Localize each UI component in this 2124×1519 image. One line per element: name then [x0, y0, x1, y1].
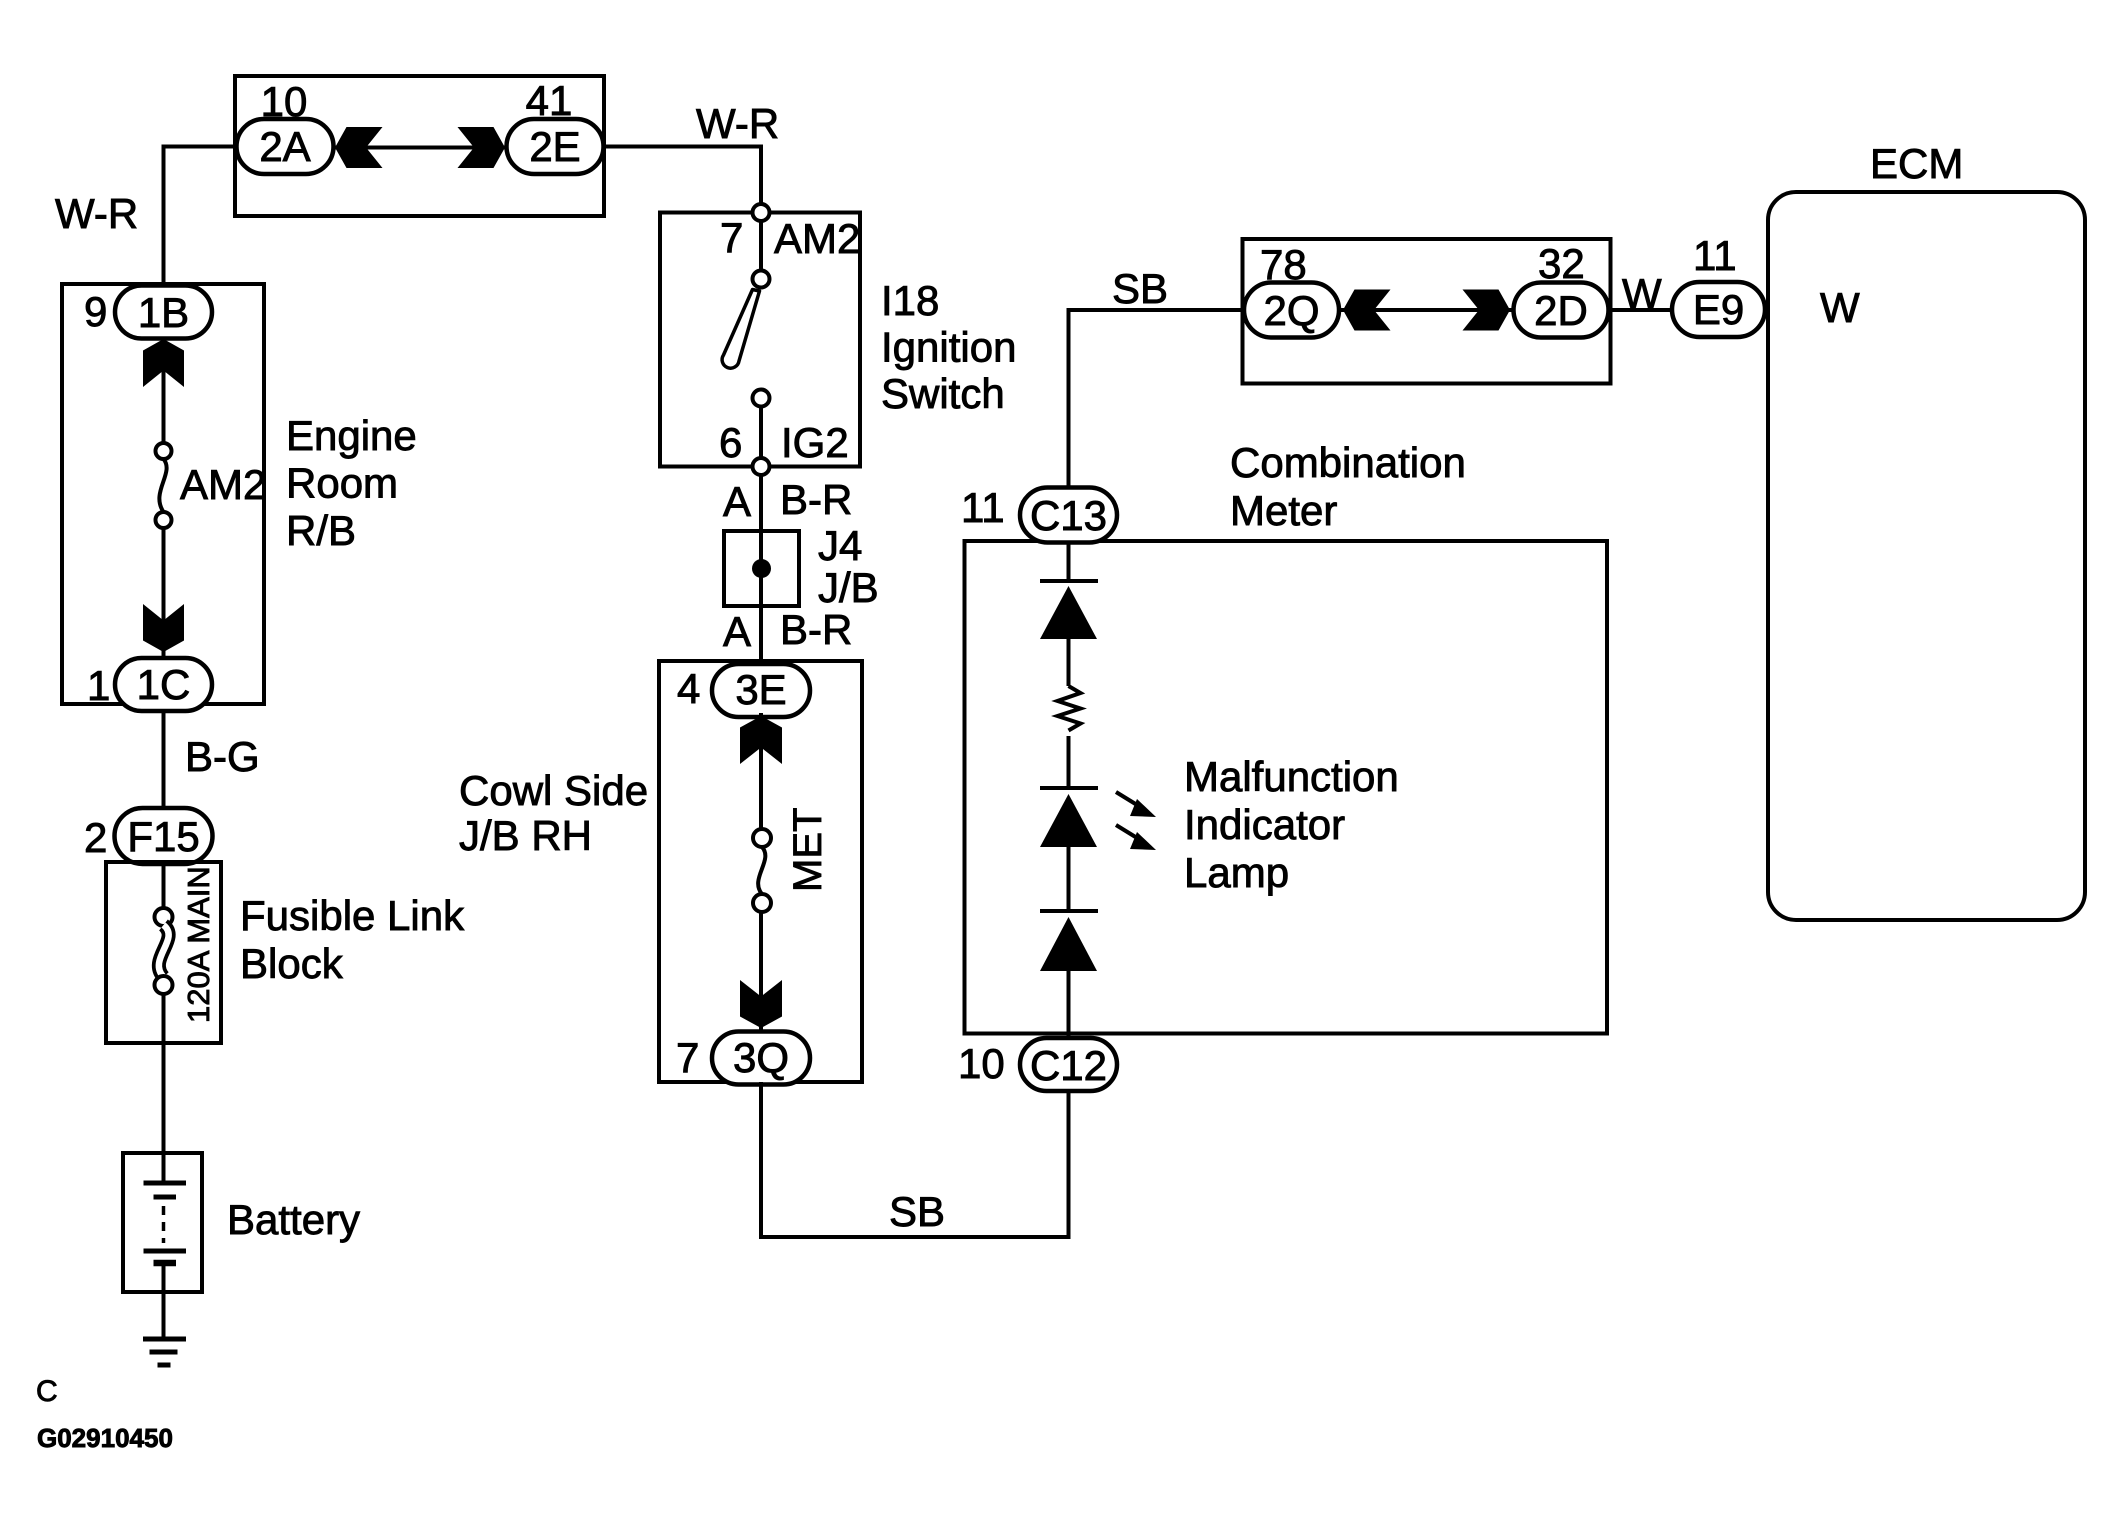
- svg-text:F15: F15: [127, 813, 199, 860]
- label Combination Meter: [1230, 439, 1466, 534]
- connector 1C: [115, 658, 212, 711]
- svg-text:120A MAIN: 120A MAIN: [181, 866, 216, 1023]
- wire 3Q to C12 (SB): [761, 1082, 1069, 1237]
- Cowl Side J/B RH box: [659, 661, 862, 1082]
- wire 3E to 3Q inside cowl J/B: [759, 713, 763, 829]
- wire 1C to F15 (B-G): [162, 711, 166, 809]
- resistor: [1058, 686, 1081, 731]
- svg-text:2D: 2D: [1534, 287, 1588, 334]
- svg-text:R/B: R/B: [286, 507, 356, 554]
- label I18 Ignition Switch: [881, 277, 1016, 417]
- switch wire from terminal 7: [759, 221, 763, 272]
- Battery box: [123, 1153, 202, 1292]
- harness arrow right: [458, 127, 506, 168]
- fusible link 120A MAIN: [155, 908, 173, 994]
- label Malfunction Indicator Lamp: [1184, 753, 1399, 896]
- harness arrow up: [143, 339, 184, 387]
- svg-text:B-R: B-R: [780, 476, 852, 523]
- wire inside combination meter: [1067, 543, 1071, 1038]
- svg-text:1: 1: [87, 662, 110, 709]
- svg-text:Block: Block: [240, 940, 344, 987]
- wire C13 up and right to 2Q (SB): [1069, 310, 1244, 488]
- svg-text:A: A: [723, 608, 751, 655]
- connector 2A: [237, 119, 334, 174]
- switch wire to terminal 6: [759, 407, 763, 459]
- harness junction box 2Q-2D: [1243, 239, 1611, 384]
- harness arrow down: [740, 980, 782, 1028]
- svg-text:C12: C12: [1030, 1042, 1107, 1089]
- svg-text:Room: Room: [286, 460, 398, 507]
- svg-text:2: 2: [84, 814, 107, 861]
- connector 3E: [712, 664, 810, 717]
- connector 3Q: [712, 1032, 810, 1085]
- svg-text:W-R: W-R: [55, 190, 138, 237]
- svg-text:A: A: [723, 478, 751, 525]
- svg-text:J4: J4: [818, 522, 862, 569]
- svg-text:Meter: Meter: [1230, 487, 1337, 534]
- wire 2A to 1B (W-R): [164, 147, 237, 287]
- wire 2D to E9: [1609, 308, 1673, 312]
- ECM box: [1768, 192, 2085, 920]
- svg-text:Lamp: Lamp: [1184, 849, 1289, 896]
- svg-text:Switch: Switch: [881, 370, 1005, 417]
- svg-text:Combination: Combination: [1230, 439, 1466, 486]
- svg-text:Malfunction: Malfunction: [1184, 753, 1399, 800]
- terminal 6 circle: [753, 458, 770, 475]
- svg-text:G02910450: G02910450: [37, 1423, 173, 1453]
- svg-text:1B: 1B: [138, 289, 189, 336]
- label Fusible Link Block: [240, 892, 465, 987]
- harness arrow right: [1463, 290, 1511, 331]
- svg-text:9: 9: [84, 288, 107, 335]
- svg-text:10: 10: [958, 1040, 1005, 1087]
- wire between harness arrows: [1339, 308, 1514, 312]
- svg-text:E9: E9: [1693, 286, 1744, 333]
- harness arrow down: [143, 604, 184, 652]
- ground: [143, 1339, 186, 1365]
- Engine Room R/B box: [62, 284, 264, 704]
- svg-text:3Q: 3Q: [733, 1034, 789, 1081]
- svg-text:Battery: Battery: [227, 1196, 360, 1243]
- label Cowl Side J/B RH: [459, 767, 648, 859]
- svg-text:32: 32: [1538, 240, 1585, 287]
- connector 1B: [115, 286, 212, 339]
- svg-text:AM2: AM2: [180, 461, 266, 508]
- label Engine Room R/B: [286, 412, 417, 554]
- svg-text:IG2: IG2: [781, 419, 849, 466]
- svg-text:Indicator: Indicator: [1184, 801, 1345, 848]
- svg-text:MET: MET: [786, 808, 830, 892]
- battery plates: [144, 1183, 187, 1263]
- svg-text:W-R: W-R: [696, 100, 779, 147]
- junction block J4 box: [724, 531, 799, 606]
- svg-text:6: 6: [719, 419, 742, 466]
- Combination Meter box: [965, 541, 1608, 1034]
- harness arrow left: [335, 127, 383, 168]
- wire between harness arrows: [334, 146, 508, 150]
- connector 2D: [1514, 283, 1609, 338]
- wire battery lower plate: [162, 1262, 166, 1292]
- svg-text:2A: 2A: [259, 123, 310, 170]
- switch contact lower: [753, 390, 770, 407]
- wire 2E to ignition switch terminal 7 (W-R): [604, 147, 761, 207]
- junction dot: [752, 559, 771, 578]
- connector F15: [115, 808, 213, 864]
- svg-text:B-R: B-R: [780, 606, 852, 653]
- svg-text:Ignition: Ignition: [881, 324, 1016, 371]
- svg-text:7: 7: [676, 1034, 699, 1081]
- diode D3: [1040, 911, 1098, 971]
- switch contact upper: [753, 271, 770, 288]
- terminal 7 circle: [753, 204, 770, 221]
- connector 2Q: [1244, 283, 1339, 338]
- svg-text:W: W: [1820, 284, 1860, 331]
- connector C12: [1020, 1038, 1117, 1091]
- Ignition Switch box: [660, 213, 860, 467]
- svg-text:Engine: Engine: [286, 412, 417, 459]
- diode D1: [1040, 581, 1098, 639]
- wire F15 into fusible link block: [162, 864, 166, 908]
- harness arrow left: [1343, 290, 1391, 331]
- svg-text:Cowl Side: Cowl Side: [459, 767, 648, 814]
- svg-text:I18: I18: [881, 277, 939, 324]
- wire 1B to 1C inside engine room R/B: [162, 339, 166, 443]
- wire fusible link block to battery: [162, 994, 166, 1183]
- connector E9: [1672, 282, 1765, 337]
- svg-text:2Q: 2Q: [1263, 287, 1319, 334]
- svg-text:SB: SB: [889, 1188, 945, 1235]
- harness junction box 2A-2E: [235, 76, 604, 216]
- svg-text:SB: SB: [1112, 265, 1168, 312]
- svg-text:C: C: [36, 1375, 58, 1408]
- svg-text:C13: C13: [1030, 492, 1107, 539]
- LED D2: [1040, 788, 1098, 847]
- svg-text:11: 11: [1693, 232, 1737, 279]
- harness arrow up: [740, 716, 782, 764]
- svg-text:J/B RH: J/B RH: [459, 812, 592, 859]
- svg-text:J/B: J/B: [818, 564, 879, 611]
- svg-text:2E: 2E: [529, 123, 580, 170]
- LED emission arrows: [1116, 792, 1156, 850]
- Fusible Link Block box: [106, 862, 221, 1043]
- svg-text:1C: 1C: [137, 661, 191, 708]
- connector C13: [1020, 488, 1117, 543]
- svg-text:AM2: AM2: [774, 215, 860, 262]
- svg-text:11: 11: [961, 484, 1005, 531]
- fuse MET: [753, 829, 771, 912]
- wire battery to ground: [162, 1292, 166, 1339]
- svg-text:3E: 3E: [735, 666, 786, 713]
- connector 2E: [507, 119, 604, 174]
- svg-text:Fusible Link: Fusible Link: [240, 892, 465, 939]
- fuse AM2: [156, 443, 172, 528]
- wire ignition switch to 3E (B-R): [759, 475, 763, 666]
- svg-text:ECM: ECM: [1870, 140, 1963, 187]
- svg-text:B-G: B-G: [185, 733, 260, 780]
- svg-text:4: 4: [677, 665, 700, 712]
- svg-text:7: 7: [720, 214, 743, 261]
- switch lever: [722, 290, 759, 369]
